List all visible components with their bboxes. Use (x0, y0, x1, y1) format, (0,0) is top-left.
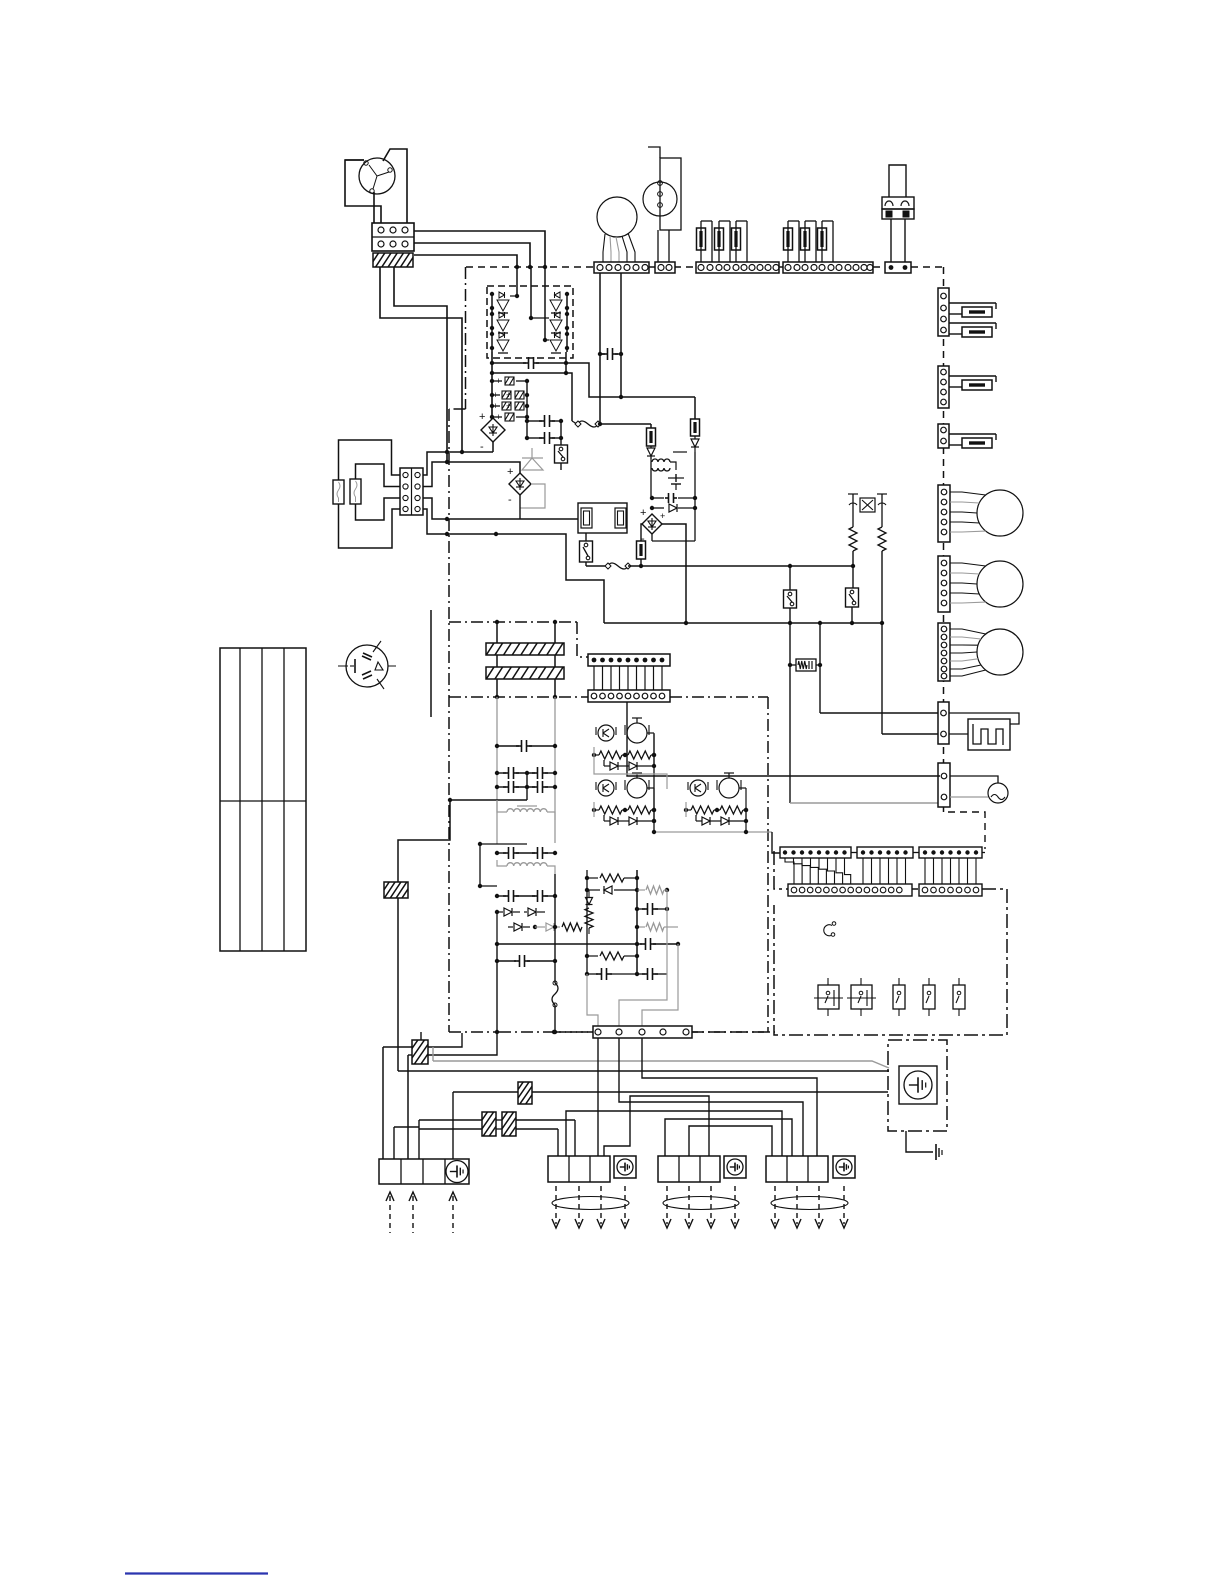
wire (586, 565, 607, 567)
wire (881, 551, 883, 623)
wire (604, 622, 882, 624)
capacitor C1 (490, 376, 529, 386)
display board dash-dot box (774, 851, 1007, 1035)
arrow (386, 1192, 394, 1233)
wire (594, 666, 662, 690)
node (495, 695, 557, 699)
relay driver RY2 (592, 773, 656, 825)
wire (651, 452, 695, 541)
wire (382, 1047, 384, 1159)
capacitor pair (495, 847, 557, 859)
node (684, 621, 884, 625)
wire (495, 944, 499, 1034)
transistor Q4 (550, 292, 562, 313)
node (490, 361, 568, 365)
connector block CNB4 (766, 1156, 855, 1182)
connector CN7 (938, 702, 949, 744)
resistor R7 (gray) (635, 923, 678, 931)
wire dash-dot (499, 1030, 593, 1034)
filter FL6 (470, 1111, 513, 1137)
wire (949, 713, 1019, 724)
switch S4 (784, 566, 797, 608)
wire (619, 1038, 803, 1159)
wire (652, 734, 656, 832)
node (445, 460, 449, 464)
bridge rectifier DB2 (507, 466, 531, 506)
relay K1 (882, 197, 914, 219)
capacitor C15 (585, 968, 637, 980)
wire (620, 273, 622, 354)
svg-text:+: + (506, 390, 511, 400)
node (619, 395, 623, 399)
node (515, 265, 547, 269)
wire (906, 1131, 933, 1152)
wire dash-dot display top (692, 1031, 775, 1033)
wire dash-dot boundary (465, 267, 467, 409)
wire (356, 464, 401, 487)
pressure switch PS (643, 147, 681, 230)
varistor assembly (848, 494, 887, 527)
wire (420, 1032, 422, 1040)
svg-text:-: - (480, 441, 484, 453)
wire (553, 1005, 557, 1034)
wire (531, 267, 549, 318)
ground (936, 1144, 942, 1160)
wire dash-dot (449, 1031, 499, 1033)
wire (414, 243, 530, 267)
wire (950, 776, 998, 783)
connector CN6 (938, 424, 949, 448)
wire (491, 292, 493, 352)
wire (453, 1091, 888, 1093)
wire (gray) (433, 1047, 889, 1068)
wire y944 (495, 942, 639, 946)
wire (545, 267, 549, 340)
transformer T2 (497, 800, 555, 820)
wire (394, 267, 447, 462)
svg-text:+: + (660, 511, 665, 521)
fuse F8 (949, 376, 996, 390)
wire (662, 524, 686, 623)
wire (665, 1119, 792, 1159)
wire (744, 808, 748, 832)
fuse F2 (350, 479, 361, 504)
transformer T1 (651, 452, 687, 471)
wire fan leads (603, 233, 635, 262)
inductor L1 (552, 981, 558, 1007)
thyristor (gray) (522, 448, 543, 470)
wire (642, 1038, 817, 1159)
thermistor TH1 (988, 783, 1008, 803)
switch SW2 (847, 978, 876, 1016)
svg-text:+: + (479, 411, 485, 423)
transformer T3 (497, 860, 555, 874)
wire (452, 1092, 454, 1159)
wire (339, 504, 401, 548)
node (515, 294, 547, 342)
resistor R2 (878, 527, 886, 551)
fan motor FM1 with connector (938, 485, 1023, 542)
wire (339, 440, 401, 480)
legend table (220, 648, 306, 951)
capacitor C5 (527, 415, 563, 427)
diode D1 (647, 446, 655, 462)
arrow group with loop (663, 1186, 739, 1228)
fuse loop (697, 221, 713, 262)
diode D3 (650, 504, 697, 521)
fuse block FB1 (578, 503, 627, 533)
connector block CNB3 (658, 1156, 746, 1182)
wire (599, 273, 601, 424)
capacitor C13 (635, 903, 669, 915)
wire dash-dot board right (767, 697, 769, 1032)
terminal block TB1 hatched base (369, 252, 423, 268)
wire dashed bus (873, 266, 885, 268)
display connector strip E (919, 884, 982, 896)
wire (554, 874, 556, 983)
wire dashed bus (779, 266, 783, 268)
filter FL5 (507, 1081, 547, 1105)
terminal strip X2 (696, 262, 779, 273)
svg-text:-: - (508, 494, 512, 506)
wire (572, 421, 577, 424)
capacitor pair (495, 890, 557, 902)
connector block CNB2 (548, 1156, 636, 1182)
wire display pin links (785, 858, 976, 884)
svg-text:+: + (496, 412, 501, 422)
wire dashed bus (911, 266, 944, 268)
wire (gray) (520, 484, 545, 508)
wire (628, 564, 792, 568)
wire (490, 371, 568, 375)
capacitor C7 (668, 474, 684, 490)
wire (560, 421, 562, 445)
node (490, 332, 569, 350)
divider line (430, 610, 432, 717)
heater element HTR (968, 719, 1010, 750)
wire dash-dot boundary (449, 408, 466, 410)
transistor Q5 (550, 312, 562, 333)
diode D2 (691, 436, 699, 452)
arrow group with loop (771, 1186, 848, 1228)
wire (852, 551, 854, 588)
wire (356, 498, 401, 520)
wire (496, 534, 604, 623)
connector CN3 (885, 262, 911, 273)
wire (820, 712, 940, 714)
wire (604, 1096, 709, 1156)
fuse loop (801, 221, 817, 262)
wire (652, 534, 695, 541)
filter bar FL1 (486, 642, 573, 656)
wire (491, 352, 493, 438)
wire (408, 1033, 497, 1055)
diode D4 (495, 908, 520, 916)
wire dash-dot board bottom (554, 1031, 768, 1033)
connector block CNB1 (379, 1159, 469, 1184)
wire (448, 798, 527, 802)
node (495, 620, 557, 624)
fuse F9 (949, 434, 996, 448)
filter FL3 (378, 881, 419, 899)
wire (520, 518, 578, 520)
wire (525, 417, 529, 438)
wire (423, 462, 520, 487)
switch S2 (580, 533, 593, 566)
bridge rectifier DB3 (640, 507, 662, 545)
terminal strip X1 (594, 262, 649, 273)
wire dash-dot (670, 696, 768, 698)
wire (423, 452, 493, 475)
capacitor C14 (635, 968, 667, 980)
relay driver RY3 (684, 773, 748, 825)
wire (526, 773, 528, 800)
wire (gray rail) (554, 697, 556, 843)
connector CN8 (938, 763, 950, 807)
wire (566, 1111, 782, 1159)
wire (419, 1120, 575, 1156)
wire (414, 231, 545, 267)
fan motor FM3 with connector (938, 623, 1023, 681)
wire dash-dot board top (449, 621, 577, 623)
resistor R5 (gray) (637, 886, 669, 894)
switch SW5 (953, 978, 965, 1016)
wire (gray) (642, 944, 678, 1027)
wire (gray) (789, 665, 791, 803)
wire (889, 165, 906, 197)
connector CN4 (938, 288, 949, 336)
wire (380, 267, 462, 452)
wire (gray) (950, 796, 988, 798)
wire (566, 363, 695, 397)
wire (882, 733, 940, 735)
earth terminal E1 (899, 1066, 937, 1104)
node (639, 564, 643, 568)
switch S3 (846, 588, 859, 607)
fan motor FM2 with connector (938, 556, 1023, 612)
switch S1 (555, 445, 568, 463)
svg-text:+: + (640, 507, 646, 519)
resistor R3 (gray) (535, 923, 582, 931)
wire (560, 463, 562, 470)
wire (394, 1127, 419, 1159)
wire (600, 424, 651, 428)
connector CN11 (593, 1026, 692, 1038)
resistor R1 (849, 527, 857, 551)
fuse F4 (691, 419, 700, 436)
footer link underline (125, 1572, 268, 1574)
wire (566, 373, 572, 421)
wire (492, 442, 494, 452)
capacitor C3 (490, 401, 530, 411)
capacitor C8 (650, 493, 697, 503)
fuse F7 (949, 323, 996, 337)
capacitor pair (495, 781, 557, 793)
wire (gray) (790, 802, 940, 804)
wire (627, 702, 940, 776)
wire (789, 608, 791, 665)
wire (345, 160, 381, 223)
fuse F5 (637, 541, 646, 566)
wire (gray) (587, 974, 598, 1027)
capacitor C12 (495, 955, 557, 967)
wire (gray rail) (496, 697, 498, 844)
connector CN9 bottom (588, 690, 670, 702)
connector CN10 (400, 468, 423, 515)
wire (586, 870, 588, 890)
inverter module dashed box (487, 286, 573, 358)
display connector strip C (919, 847, 982, 858)
switch SW1 (814, 978, 843, 1016)
terminal block TB1 (372, 223, 414, 251)
connector CN5 (938, 366, 949, 408)
wire (620, 354, 622, 397)
wire (gray) (619, 890, 667, 1027)
terminal strip X3 (783, 262, 873, 273)
wire (566, 292, 568, 352)
node (445, 450, 464, 454)
diode D8 (586, 890, 593, 905)
fuse loop (715, 221, 731, 262)
switch SW3 (893, 978, 905, 1016)
capacitor C6 (525, 432, 563, 444)
diode D5 (524, 908, 545, 916)
svg-text:+: + (496, 376, 501, 386)
power plug symbol (338, 641, 396, 689)
wire (407, 1055, 409, 1159)
wire (397, 898, 399, 1071)
wire (398, 1070, 889, 1072)
capacitor C2 (490, 390, 530, 400)
wire (398, 800, 450, 882)
display connector strip B (857, 847, 913, 858)
wire (641, 524, 642, 541)
wire (565, 352, 567, 373)
wire (850, 607, 854, 625)
bridge rectifier DB1 (479, 411, 505, 453)
transistor Q6 (550, 332, 562, 353)
node (490, 312, 569, 330)
wire (373, 192, 375, 223)
arrow (409, 1192, 417, 1233)
resistor R6 (585, 908, 593, 934)
wire (554, 622, 556, 697)
wire (419, 1129, 558, 1156)
wire (383, 149, 407, 223)
node (445, 532, 498, 536)
fan motor MF (597, 197, 637, 237)
buzzer BZ (824, 922, 836, 937)
fuse F1 (333, 480, 344, 504)
transistor Q2 (497, 312, 509, 333)
wire x637 (636, 870, 638, 974)
fuse loop (732, 221, 748, 262)
wire (694, 397, 696, 419)
wire (891, 219, 905, 262)
wire (gray) (594, 762, 667, 789)
wire (510, 267, 517, 296)
fuse F3 (647, 428, 656, 446)
filter FL7 (490, 1111, 533, 1137)
wire (819, 623, 821, 713)
wire (519, 495, 521, 519)
arrow group with loop (552, 1186, 629, 1228)
diode D6 (508, 923, 537, 931)
wire (383, 1046, 412, 1048)
node (445, 517, 449, 521)
capacitor C4 (490, 412, 529, 422)
wire (597, 1038, 599, 1156)
wire (881, 623, 883, 734)
node (490, 292, 569, 310)
wire (496, 912, 498, 944)
snubber RC1 (788, 659, 822, 671)
ground unit dash-dot box (888, 1040, 947, 1131)
wire (689, 1126, 772, 1159)
wire (418, 1120, 420, 1159)
wire (423, 498, 520, 519)
wire dashed bus (674, 266, 696, 268)
wire (478, 842, 527, 846)
wire (851, 852, 985, 854)
wire (586, 890, 588, 974)
relay driver RY1 (592, 718, 656, 770)
flexible link (605, 563, 631, 569)
fuse loop (818, 221, 834, 262)
wire (gray) (652, 830, 772, 834)
wire dash-dot board mid (449, 696, 588, 698)
wire (949, 733, 968, 735)
resistor R4 (585, 874, 639, 882)
wire dashed bus (466, 266, 594, 268)
wire dashed bus (649, 266, 655, 268)
connector CN2 (655, 262, 675, 273)
wire (423, 509, 496, 534)
wire dash-dot boundary (448, 409, 450, 1032)
fuse F6 (949, 303, 996, 317)
switch SW4 (923, 978, 935, 1016)
wire (772, 832, 781, 853)
display connector strip A (780, 847, 851, 858)
flexible link (575, 421, 601, 427)
svg-text:+: + (507, 466, 513, 478)
wire dash-dot (577, 622, 588, 657)
wire (478, 844, 497, 888)
capacitor C10 (495, 740, 557, 752)
display connector strip D (788, 884, 912, 896)
capacitor C11 (637, 938, 680, 950)
capacitor C-link (492, 357, 566, 369)
wire (496, 622, 498, 697)
wire (790, 564, 855, 568)
transistor Q1 (497, 292, 509, 313)
wire dashed harness right (943, 267, 945, 812)
filter FL4 (401, 1039, 445, 1065)
node (598, 422, 602, 426)
svg-text:+: + (506, 401, 511, 411)
wire (414, 255, 517, 267)
capacitor pair (495, 767, 557, 779)
filter bar FL2 (486, 666, 573, 680)
resistor R8 (585, 952, 639, 960)
arrow (449, 1192, 457, 1233)
wire (345, 159, 364, 161)
capacitor C9 (598, 348, 623, 360)
wire (658, 230, 669, 262)
wire (526, 380, 528, 417)
wire dashed (948, 812, 985, 849)
connector CN9 top (588, 654, 670, 666)
